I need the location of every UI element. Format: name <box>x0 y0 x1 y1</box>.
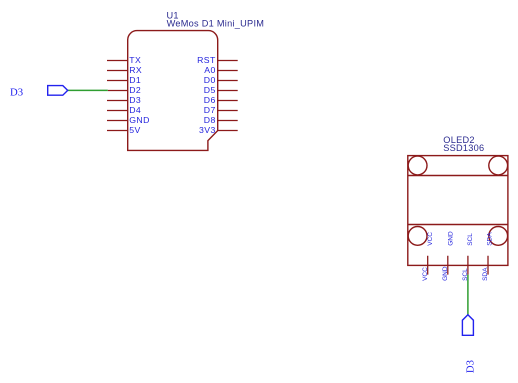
svg-text:D3: D3 <box>10 87 23 99</box>
svg-text:D1: D1 <box>129 75 141 85</box>
svg-text:D7: D7 <box>204 105 216 115</box>
svg-text:D4: D4 <box>129 105 141 115</box>
svg-text:3V3: 3V3 <box>199 125 216 135</box>
svg-text:VCC: VCC <box>422 267 429 281</box>
svg-text:D2: D2 <box>129 85 141 95</box>
svg-text:5V: 5V <box>129 125 141 135</box>
svg-text:D3: D3 <box>465 360 477 373</box>
svg-text:A0: A0 <box>204 65 216 75</box>
svg-text:D6: D6 <box>204 95 216 105</box>
svg-text:SDA: SDA <box>482 267 489 281</box>
svg-text:GND: GND <box>129 115 150 125</box>
svg-text:D3: D3 <box>129 95 141 105</box>
svg-text:SSD1306: SSD1306 <box>443 143 484 153</box>
svg-text:RST: RST <box>197 55 216 65</box>
svg-text:GND: GND <box>447 231 454 246</box>
svg-text:RX: RX <box>129 65 142 75</box>
svg-text:WeMos D1 Mini_UPIM: WeMos D1 Mini_UPIM <box>167 19 265 29</box>
svg-text:VCC: VCC <box>427 232 434 246</box>
svg-text:SDA: SDA <box>487 232 494 246</box>
svg-text:D0: D0 <box>204 75 216 85</box>
svg-text:TX: TX <box>129 55 141 65</box>
svg-text:SCL: SCL <box>467 233 474 246</box>
svg-text:GND: GND <box>442 266 449 281</box>
svg-text:D8: D8 <box>204 115 216 125</box>
svg-text:D5: D5 <box>204 85 216 95</box>
